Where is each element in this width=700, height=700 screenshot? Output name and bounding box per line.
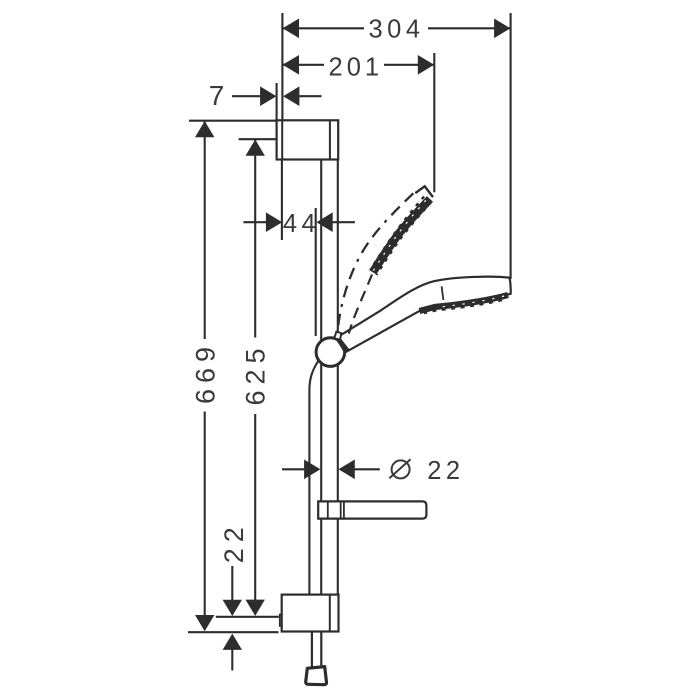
holder dark wedge xyxy=(335,336,350,354)
dim line 201 xyxy=(282,64,324,66)
arrowhead 7 right (points left) xyxy=(283,86,299,106)
hose front line (above slider) xyxy=(315,208,317,336)
extension line E (y=120.7 top of 669) xyxy=(189,120,277,122)
label Ø 22 xyxy=(389,459,410,478)
extension line A (left, x=282.4) xyxy=(281,13,283,120)
arrowhead 7 left (points right) xyxy=(260,86,276,106)
svg-text:625: 625 xyxy=(241,342,271,405)
arrowhead 304 left xyxy=(283,19,299,39)
holder nub xyxy=(334,332,341,340)
dashed position: spray face band xyxy=(373,199,430,272)
extension line F (y=139.2 top of 625) xyxy=(239,138,277,140)
extension line C (x=434.3 down to dashed head) xyxy=(433,53,435,192)
wall line below bracket xyxy=(281,160,283,240)
dim 7 leader lines xyxy=(232,95,261,97)
spray selector pin xyxy=(442,286,444,300)
dim 22 vertical (bottom) xyxy=(231,566,233,602)
dim 44 leader lines xyxy=(243,221,266,223)
soap dish xyxy=(318,501,426,518)
svg-text:7: 7 xyxy=(209,80,225,111)
solid head spray face band xyxy=(420,295,509,311)
dashed position: head top cap xyxy=(415,186,433,197)
top wall bracket xyxy=(277,120,339,159)
dim line 304 xyxy=(282,27,364,29)
dim line 625 vertical xyxy=(254,140,256,338)
arrowhead 304 right xyxy=(494,19,510,39)
arrowhead 22 upper (points down) xyxy=(223,600,242,616)
arrowhead 44 right (points left) xyxy=(316,212,332,232)
arrowhead 201 right xyxy=(418,55,434,75)
arrowhead 669 bottom xyxy=(195,615,214,631)
arrowhead 22 lower (points up) xyxy=(223,634,242,650)
arrowhead 44 left (points right) xyxy=(266,212,282,232)
hose connector cone xyxy=(306,667,327,685)
bottom bracket inner line xyxy=(329,595,331,632)
tick D (x=276.6 above bracket) xyxy=(276,83,278,120)
extension line H (y=632.2) xyxy=(188,631,279,633)
dashed handle back curve (dash-dot) xyxy=(338,193,414,331)
svg-text:22: 22 xyxy=(427,457,464,485)
arrowhead Ø22 right (points left) xyxy=(339,460,355,480)
extension line G (y=616.8) xyxy=(216,616,279,618)
hand shower (solid position): handle + head white fill xyxy=(338,277,511,352)
svg-text:201: 201 xyxy=(329,54,384,82)
dashed handle front curve xyxy=(349,275,372,334)
extension line B (right, to shower head, x=510.6) xyxy=(510,13,512,279)
arrowhead 201 left xyxy=(283,55,299,75)
slider ball xyxy=(316,338,345,367)
hose outlet below bracket xyxy=(312,632,321,667)
svg-text:669: 669 xyxy=(191,341,221,404)
svg-text:304: 304 xyxy=(368,16,424,44)
arrowhead 625 bottom xyxy=(246,600,265,616)
dim Ø22 leader lines xyxy=(282,468,305,470)
rail left edge xyxy=(320,160,322,502)
dim line 669 vertical xyxy=(204,121,206,339)
arrowhead 625 top xyxy=(246,140,265,156)
bottom wall bracket xyxy=(280,595,339,632)
hose curve below slider xyxy=(309,361,318,594)
svg-text:44: 44 xyxy=(283,210,320,238)
arrowhead Ø22 left (points right) xyxy=(304,460,320,480)
svg-text:22: 22 xyxy=(219,521,249,563)
arrowhead 669 top xyxy=(195,121,214,137)
rail right edge xyxy=(337,160,339,502)
